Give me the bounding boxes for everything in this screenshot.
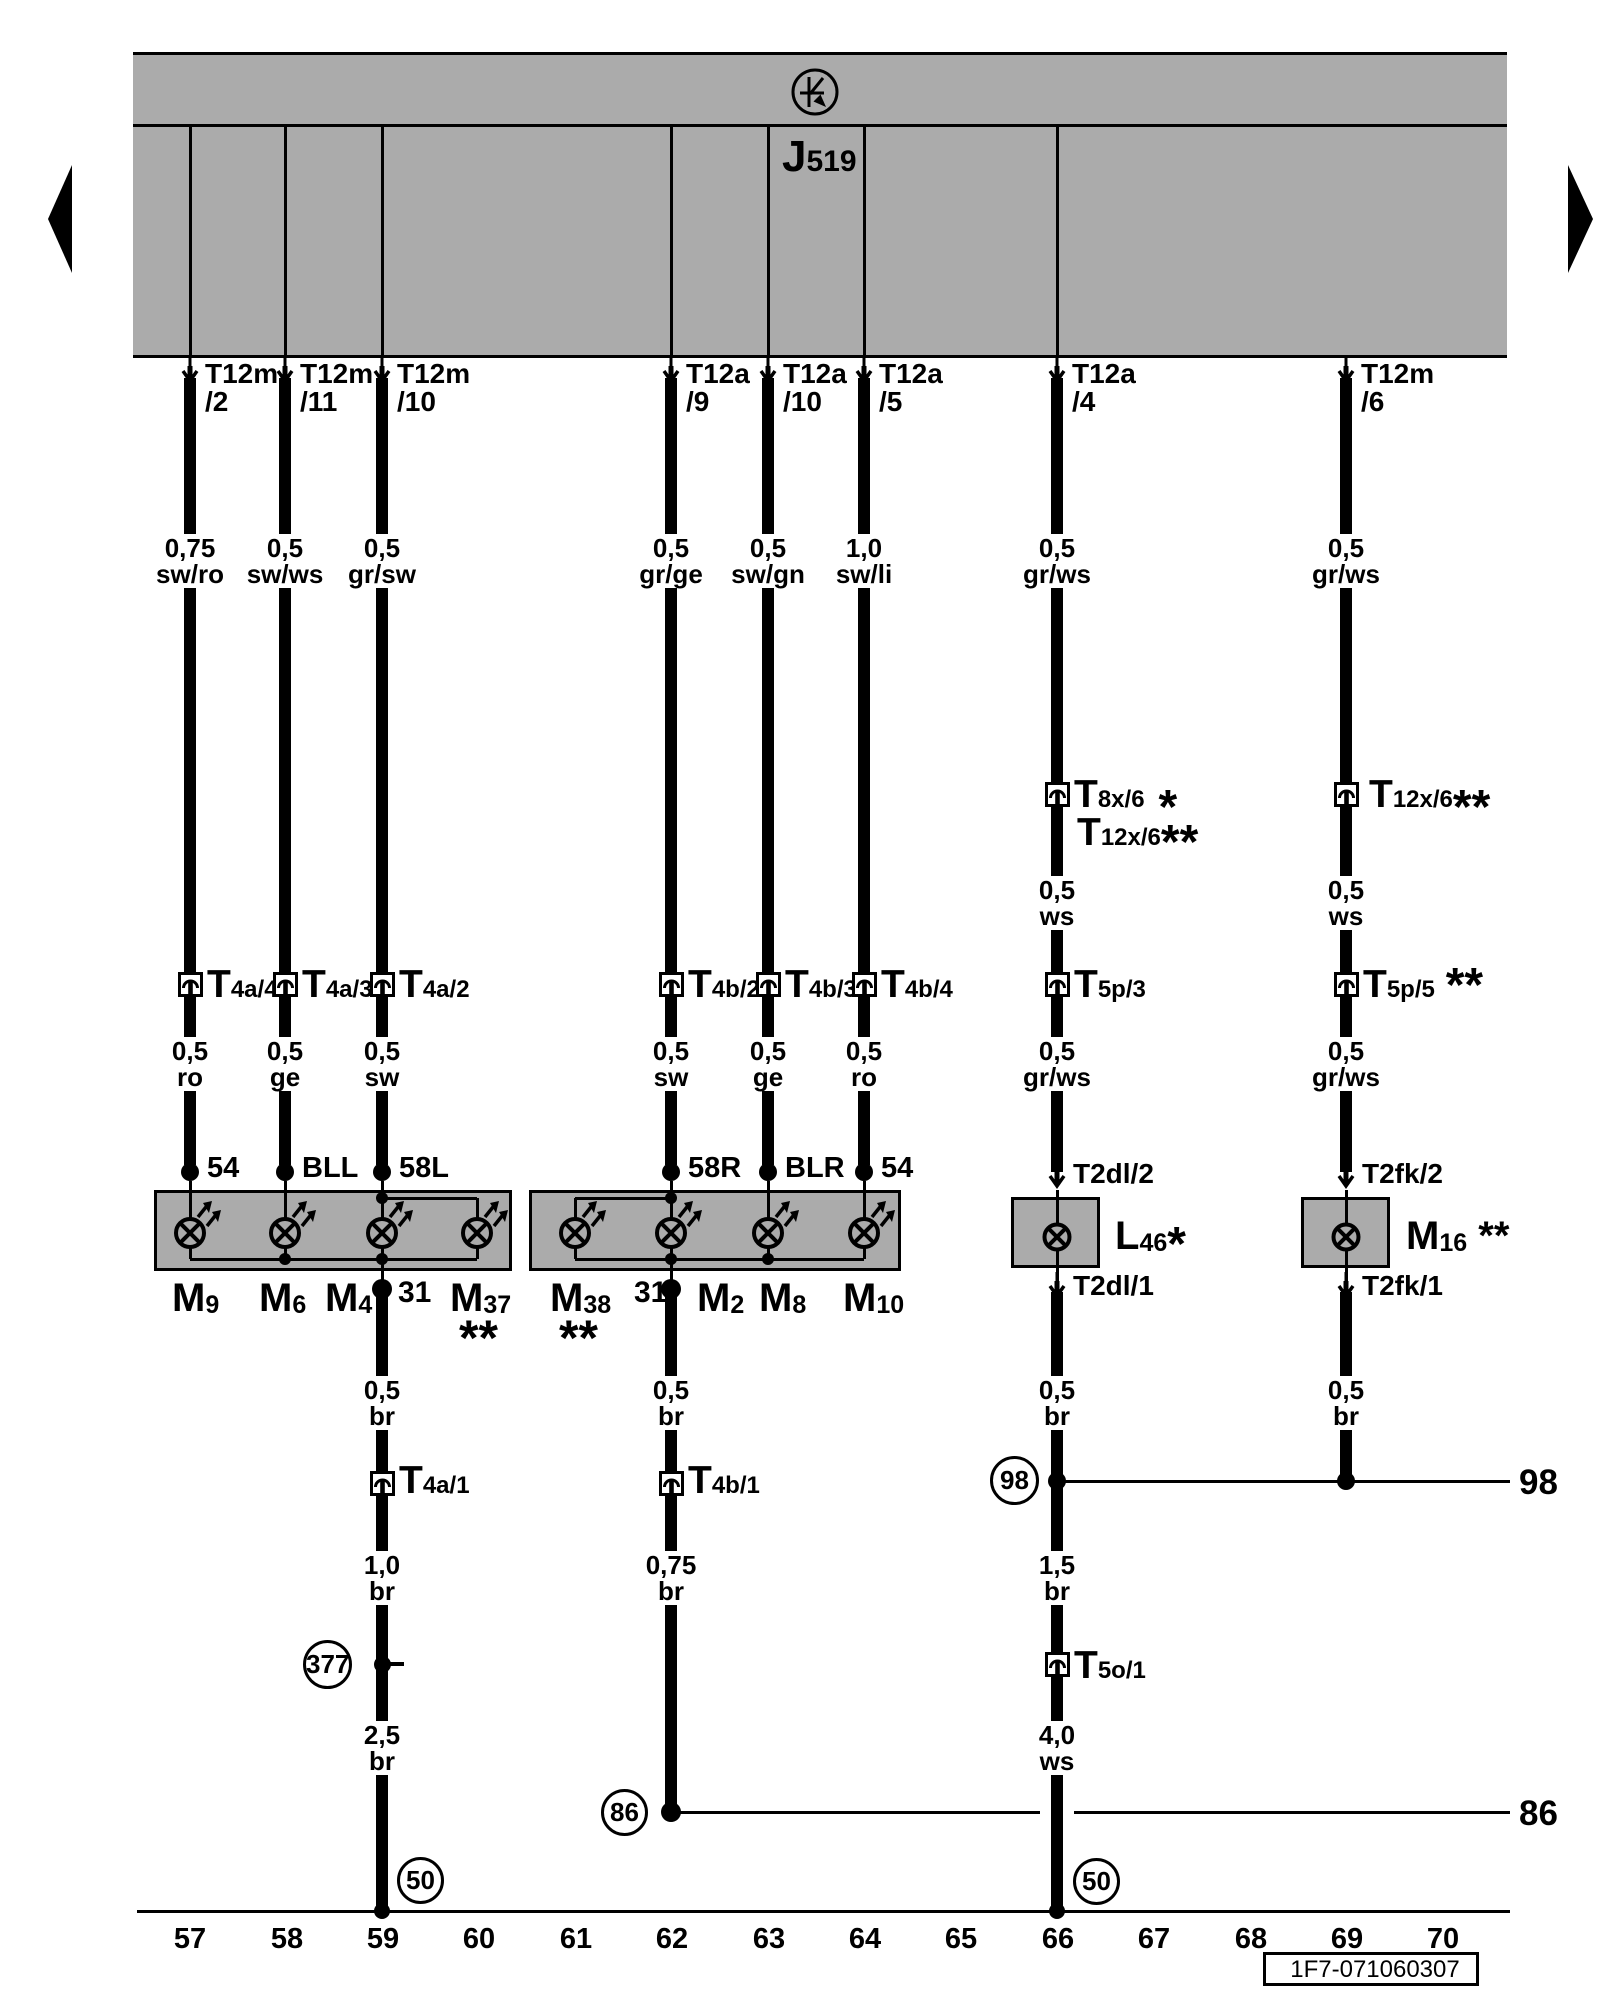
wire M4 feed xyxy=(381,1181,384,1219)
label M38 ** xyxy=(550,1278,611,1325)
grid number 62 xyxy=(656,1925,688,1954)
connector arrow T2fk/2 xyxy=(1334,1162,1358,1192)
lamp M10 xyxy=(838,1193,902,1259)
connector arrow pin T12m/2 xyxy=(178,357,202,387)
connector T4b/1 xyxy=(659,1471,684,1496)
node node 86 xyxy=(661,1802,681,1822)
grid number 69 xyxy=(1331,1925,1363,1954)
connector T4a/4 xyxy=(178,972,203,997)
J519 box divider line xyxy=(133,124,1507,127)
connector T5o/1 xyxy=(1045,1652,1070,1677)
grid number 66 xyxy=(1042,1925,1074,1954)
label pin label T12m/10 xyxy=(397,360,470,416)
label pin label T12a/9 xyxy=(686,360,750,416)
connector arrow pin T12m/10 xyxy=(370,357,394,387)
label J519 xyxy=(782,135,857,179)
wire M38 return xyxy=(574,1247,577,1259)
J519 box bottom border xyxy=(133,355,1507,358)
grid number 68 xyxy=(1235,1925,1267,1954)
label pin label T12m/6 xyxy=(1361,360,1434,416)
label M8 xyxy=(759,1278,806,1325)
node junction M2 return xyxy=(665,1253,677,1265)
node junction 58R/M38 xyxy=(665,1192,677,1204)
node junction M8 return xyxy=(762,1253,774,1265)
wire 0,5 br (M16) xyxy=(1340,1292,1352,1475)
wire label 0,5 ro xyxy=(842,1037,886,1091)
wire M16 feed xyxy=(1345,1190,1348,1223)
connector arrow pin T12a/9 xyxy=(659,357,683,387)
wire label 4,0 ws xyxy=(1035,1721,1079,1775)
label ** under M38 xyxy=(559,1313,598,1363)
wire pin line T12a/4 xyxy=(1056,127,1059,355)
label T4b/1 xyxy=(688,1461,760,1505)
wire label 0,5 ge xyxy=(746,1037,790,1091)
label T4b/2 xyxy=(688,965,760,1009)
wire L46 feed xyxy=(1056,1190,1059,1223)
label T4a/1 xyxy=(399,1461,470,1505)
node label circle circle 50 left xyxy=(397,1857,444,1904)
wire M2 feed xyxy=(670,1181,673,1219)
wire M37 feed xyxy=(476,1198,479,1219)
connector arrow pin T12a/5 xyxy=(852,357,876,387)
node terminal 54 xyxy=(855,1163,873,1181)
label label T2fk/1 xyxy=(1362,1272,1443,1300)
wire M8 feed xyxy=(767,1181,770,1219)
wire 0,5 br (L46) xyxy=(1051,1292,1063,1475)
label pin label T12a/10 xyxy=(783,360,847,416)
grid number 63 xyxy=(753,1925,785,1954)
wire 0,5 sw/ws xyxy=(279,378,291,1165)
connector T5p/5 xyxy=(1334,972,1359,997)
connector arrow pin T12m/6 xyxy=(1334,357,1358,387)
node node 31 right xyxy=(661,1279,681,1299)
wire 0,5 gr/sw xyxy=(376,378,388,1165)
label T5p/5 ** xyxy=(1363,965,1483,1009)
grid number 58 xyxy=(271,1925,303,1954)
wire M9 return xyxy=(189,1247,192,1259)
grid number 65 xyxy=(945,1925,977,1954)
lamp M38 xyxy=(549,1193,613,1259)
label M4 xyxy=(325,1278,372,1325)
connector T4b/2 xyxy=(659,972,684,997)
wire M4 return xyxy=(381,1247,384,1259)
wire M37 return xyxy=(476,1247,479,1259)
label T12x/6 ** (second line) xyxy=(1077,813,1198,857)
node terminal 54 xyxy=(181,1163,199,1181)
wire M16 return xyxy=(1345,1251,1348,1282)
label M10 xyxy=(843,1278,904,1325)
wire 2,5 br (59) xyxy=(376,1666,388,1911)
control unit J519 box xyxy=(133,53,1507,357)
lamp M8 xyxy=(742,1193,806,1259)
symbol K (interior light) in circle xyxy=(790,66,840,118)
wire L46 return xyxy=(1056,1251,1059,1282)
lamp unit box left (M9 M6 M4 M37) xyxy=(154,1190,512,1271)
lamp M16 xyxy=(1320,1197,1384,1263)
wire M6 feed xyxy=(284,1181,287,1219)
wire label 1,0 sw/li xyxy=(832,534,896,588)
wire 0,5 gr/ws (T12a/4) xyxy=(1051,378,1063,1172)
label label 98 right xyxy=(1519,1465,1558,1500)
connector arrow T2dl/2 xyxy=(1045,1162,1069,1192)
label terminal label 54 xyxy=(881,1154,913,1183)
wire label 0,5 gr/ws xyxy=(1019,1037,1095,1091)
wire label 0,5 gr/ws xyxy=(1308,1037,1384,1091)
wire label 0,5 gr/ws xyxy=(1308,534,1384,588)
wire label 0,5 gr/ws xyxy=(1019,534,1095,588)
lamp M4 xyxy=(356,1193,420,1259)
wire label 1,5 br xyxy=(1035,1551,1079,1605)
wire 0,5 br (M4) xyxy=(376,1295,388,1471)
label T4b/4 xyxy=(881,965,953,1009)
grid number 57 xyxy=(174,1925,206,1954)
node label circle circle 377 xyxy=(303,1640,352,1689)
wire label 0,5 gr/sw xyxy=(344,534,420,588)
wire label 0,5 sw/ws xyxy=(243,534,328,588)
node node 98 right xyxy=(1337,1472,1355,1490)
lamp M2 xyxy=(645,1193,709,1259)
wire 0,5 gr/ge xyxy=(665,378,677,1165)
lamp M9 xyxy=(164,1193,228,1259)
label label T2dl/1 xyxy=(1073,1272,1154,1300)
wire 0,75 sw/ro xyxy=(184,378,196,1165)
connector T4a/2 xyxy=(370,972,395,997)
label L46 * xyxy=(1115,1216,1186,1263)
connector arrow T2fk/1 xyxy=(1334,1272,1358,1302)
lamp M37 xyxy=(451,1193,515,1259)
label T5p/3 xyxy=(1074,965,1146,1009)
label M9 xyxy=(172,1278,219,1325)
wire 0,5 sw/gn xyxy=(762,378,774,1165)
node node 377 xyxy=(374,1656,391,1673)
wire label 0,5 gr/ge xyxy=(635,534,707,588)
node label circle circle 50 right xyxy=(1073,1858,1120,1905)
grid number 67 xyxy=(1138,1925,1170,1954)
label T5o/1 xyxy=(1074,1646,1146,1690)
label M2 xyxy=(697,1278,744,1325)
connector T4a/1 xyxy=(370,1471,395,1496)
label 31 left xyxy=(398,1278,431,1308)
wire label 0,5 br (66) xyxy=(1035,1376,1079,1430)
wire label 0,5 br (59) xyxy=(360,1376,404,1430)
label terminal label BLR xyxy=(785,1154,845,1183)
node terminal BLL xyxy=(276,1163,294,1181)
wire label 0,5 ro xyxy=(168,1037,212,1091)
tick at node 377 xyxy=(387,1662,404,1666)
connector arrow pin T12a/4 xyxy=(1045,357,1069,387)
continuation arrow right xyxy=(1567,165,1594,273)
connector arrow T2dl/1 xyxy=(1045,1272,1069,1302)
node node 98 xyxy=(1048,1472,1066,1490)
label ** under M37 xyxy=(459,1313,498,1363)
lamp M6 xyxy=(259,1193,323,1259)
wire pin line T12a/9 xyxy=(670,127,673,355)
wire pin line T12m/10 xyxy=(381,127,384,355)
wire label 0,75 br xyxy=(642,1551,701,1605)
label pin label T12m/11 xyxy=(300,360,373,416)
wire label 1,0 br xyxy=(360,1551,404,1605)
label M37 ** xyxy=(450,1278,511,1325)
wire label 2,5 br xyxy=(360,1721,404,1775)
wire wire 86 right segment xyxy=(1074,1811,1510,1814)
reference box 1F7-071060307 xyxy=(1263,1952,1479,1986)
lamp unit box right (M38 M2 M8 M10) xyxy=(529,1190,901,1271)
J519 box top border xyxy=(133,52,1507,55)
node label circle circle 86 xyxy=(601,1789,648,1836)
label pin label T12a/4 xyxy=(1072,360,1136,416)
wire pin line T12m/11 xyxy=(284,127,287,355)
wire label 0,5 br (62) xyxy=(649,1376,693,1430)
label pin label T12m/2 xyxy=(205,360,278,416)
node terminal 58L xyxy=(373,1163,391,1181)
grid number 59 xyxy=(367,1925,399,1954)
wire 1,0 br (59) xyxy=(376,1496,388,1666)
label label 86 right xyxy=(1519,1796,1558,1831)
wire 1,5 br (66) xyxy=(1051,1481,1063,1652)
wire label 0,5 br (69) xyxy=(1324,1376,1368,1430)
connector arrow pin T12m/11 xyxy=(273,357,297,387)
lamp unit box L46 xyxy=(1011,1197,1100,1268)
connector T12x/6 xyxy=(1334,782,1359,807)
label T4a/3 xyxy=(302,965,373,1009)
wire M10 return xyxy=(863,1247,866,1259)
label T4a/4 xyxy=(207,965,278,1009)
wire label 0,5 sw xyxy=(649,1037,693,1091)
wire M38 feed xyxy=(574,1198,577,1219)
wire pin line T12a/5 xyxy=(863,127,866,355)
grid number 64 xyxy=(849,1925,881,1954)
label terminal label 54 xyxy=(207,1154,239,1183)
connector arrow pin T12a/10 xyxy=(756,357,780,387)
label terminal label 58L xyxy=(399,1154,449,1183)
wire label 0,5 sw xyxy=(360,1037,404,1091)
grid number 61 xyxy=(560,1925,592,1954)
wire 58L to M37 top xyxy=(382,1197,477,1200)
node ground 50 right xyxy=(1049,1903,1065,1919)
wire label 0,5 ws xyxy=(1324,876,1368,930)
connector T8x/6 xyxy=(1045,782,1070,807)
node terminal BLR xyxy=(759,1163,777,1181)
wire pin line T12a/10 xyxy=(767,127,770,355)
label terminal label BLL xyxy=(302,1154,358,1183)
node junction M6 return xyxy=(279,1253,291,1265)
wire label 0,5 ws xyxy=(1035,876,1079,930)
connector T4b/3 xyxy=(756,972,781,997)
node node 31 left xyxy=(372,1279,392,1299)
wire M8 return xyxy=(767,1247,770,1259)
node label circle circle 98 xyxy=(990,1456,1039,1505)
continuation arrow left xyxy=(47,165,73,273)
wire label 0,5 sw/gn xyxy=(727,534,809,588)
node junction M4 return xyxy=(376,1253,388,1265)
wire M6 return xyxy=(284,1247,287,1259)
wire 1,0 sw/li xyxy=(858,378,870,1165)
wire 58R to M38 top xyxy=(575,1197,671,1200)
wire 0,5 gr/ws (T12m/6) xyxy=(1340,378,1352,1172)
wire pin line T12m/2 xyxy=(189,127,192,355)
wire left box ground bus xyxy=(190,1258,477,1261)
node terminal 58R xyxy=(662,1163,680,1181)
grid number 70 xyxy=(1427,1925,1459,1954)
label T12x/6 ** xyxy=(1369,775,1490,819)
label label T2fk/2 xyxy=(1362,1160,1443,1188)
grid number 60 xyxy=(463,1925,495,1954)
wire 0,5 br (M2) xyxy=(665,1295,677,1471)
label T8x/6 * xyxy=(1074,775,1177,819)
label pin label T12a/5 xyxy=(879,360,943,416)
label 31 right xyxy=(634,1278,667,1308)
label T4a/2 xyxy=(399,965,470,1009)
wire wire 98 xyxy=(1057,1480,1510,1483)
label M16 ** xyxy=(1406,1216,1509,1263)
wire M10 feed xyxy=(863,1181,866,1219)
wire label 0,75 sw/ro xyxy=(152,534,228,588)
lamp L46 xyxy=(1031,1197,1095,1263)
lamp unit box M16 xyxy=(1301,1197,1390,1268)
wire M2 return xyxy=(670,1247,673,1259)
connector T4a/3 xyxy=(273,972,298,997)
wire M9 feed xyxy=(189,1181,192,1219)
node ground 50 left xyxy=(374,1903,390,1919)
label T4b/3 xyxy=(785,965,857,1009)
connector T4b/4 xyxy=(852,972,877,997)
wire 4,0 ws (66) xyxy=(1051,1677,1063,1911)
wire left box ground exit xyxy=(381,1259,384,1283)
label terminal label 58R xyxy=(688,1154,741,1183)
connector T5p/3 xyxy=(1045,972,1070,997)
wire 0,75 br (62) xyxy=(665,1496,677,1806)
wire right box ground bus xyxy=(575,1258,864,1261)
wire label 0,5 ge xyxy=(263,1037,307,1091)
node junction 58L/M37 xyxy=(376,1192,388,1204)
wire wire 86 left segment xyxy=(671,1811,1040,1814)
ground rail xyxy=(137,1910,1510,1913)
label label T2dl/2 xyxy=(1073,1160,1154,1188)
label M6 xyxy=(259,1278,306,1325)
wire right box ground exit xyxy=(670,1259,673,1283)
